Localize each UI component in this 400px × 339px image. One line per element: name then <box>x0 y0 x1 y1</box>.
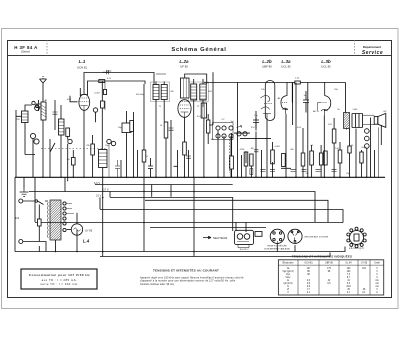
fuse box <box>255 232 262 237</box>
svg-text:L.3a: L.3a <box>281 59 291 64</box>
drop wires to connector <box>236 222 246 232</box>
svg-text:L.2b: L.2b <box>262 59 272 64</box>
cap x251 near bus <box>250 169 253 175</box>
svg-text:L.2a: L.2a <box>179 59 189 64</box>
svg-text:TENSIONS ET INTENSITÉS AU COUR: TENSIONS ET INTENSITÉS AU COURANT <box>153 267 219 272</box>
svg-text:série TD : I = 300 mA.: série TD : I = 300 mA. <box>40 282 78 286</box>
svg-text:V: V <box>376 268 378 270</box>
resistor x350 <box>348 146 351 153</box>
svg-text:0,5M: 0,5M <box>275 146 280 148</box>
svg-text:0,1: 0,1 <box>307 292 311 294</box>
svg-text:TENSIONS ET INTENSITÉS INDIQUÉ: TENSIONS ET INTENSITÉS INDIQUÉES <box>292 253 352 258</box>
svg-text:V: V <box>376 289 378 291</box>
top rail A with wire <box>84 73 154 94</box>
svg-text:Vol: Vol <box>230 121 234 123</box>
svg-text:220: 220 <box>16 119 20 121</box>
wire left input <box>25 105 32 111</box>
svg-text:38: 38 <box>363 289 366 291</box>
svg-text:6,3 V: 6,3 V <box>94 181 100 185</box>
svg-text:UCH 81: UCH 81 <box>304 262 313 264</box>
mains terminal 1 <box>19 199 23 203</box>
svg-text:21 V: 21 V <box>96 193 102 197</box>
svg-text:B+: B+ <box>338 109 341 111</box>
table header text <box>283 261 381 264</box>
svg-text:SECTEUR: SECTEUR <box>213 236 228 240</box>
svg-text:0,1: 0,1 <box>145 156 149 158</box>
svg-text:1,2k: 1,2k <box>295 78 300 80</box>
svg-text:1M: 1M <box>250 148 253 150</box>
svg-text:10n: 10n <box>254 115 258 117</box>
small cap x117 <box>115 160 120 177</box>
mains terminal 2 <box>19 240 23 244</box>
wire x349 <box>349 129 351 178</box>
svg-text:UL 84: UL 84 <box>345 262 352 264</box>
L2b wires <box>267 121 273 178</box>
resistor x105 top <box>103 90 106 95</box>
svg-text:A: A <box>376 291 378 294</box>
inner schematic frame <box>8 41 392 298</box>
tube L3a <box>281 82 293 125</box>
L3b wires <box>323 116 325 178</box>
resistor x135 <box>130 121 134 132</box>
svg-text:mA: mA <box>375 282 379 285</box>
table body text <box>282 268 379 294</box>
wire x68 <box>67 136 69 181</box>
tube socket diagram <box>347 227 366 248</box>
svg-text:1M: 1M <box>210 139 213 141</box>
lower line junction dots <box>55 191 195 253</box>
staircase verticals right <box>315 191 343 223</box>
wire x102 <box>101 81 103 150</box>
socket antenne <box>288 229 302 243</box>
svg-text:L.4: L.4 <box>83 239 90 244</box>
svg-text:4,7k: 4,7k <box>107 78 112 80</box>
svg-text:Électrodes: Électrodes <box>283 261 295 264</box>
svg-text:50µF: 50µF <box>361 147 367 149</box>
wire x103 lower <box>102 177 104 256</box>
tube label L1 <box>77 59 87 70</box>
coil antenna primary <box>22 111 29 123</box>
transformer top wire <box>345 83 347 113</box>
svg-text:Service: Service <box>362 50 383 56</box>
svg-text:2,8: 2,8 <box>307 283 311 285</box>
svg-text:5n: 5n <box>304 95 307 97</box>
heater wire y200 <box>145 200 328 222</box>
tube L2b <box>261 81 275 121</box>
svg-text:Vf: Vf <box>287 289 290 291</box>
svg-text:mA: mA <box>375 285 379 288</box>
svg-text:T2: T2 <box>197 106 200 108</box>
svg-text:98: 98 <box>307 274 310 276</box>
wire x171 <box>170 120 172 177</box>
connector drop wires <box>277 243 295 252</box>
T2 bottoms <box>194 100 203 177</box>
IF transformer T2 winding b <box>200 84 206 100</box>
svg-text:104: 104 <box>362 268 367 270</box>
IF transformer T2 winding a <box>191 84 197 100</box>
svg-text:P.U.: P.U. <box>251 127 255 129</box>
trimmer top <box>35 106 40 111</box>
T1 bottom wires <box>156 100 164 178</box>
svg-text:164: 164 <box>347 268 352 270</box>
output transformer windings <box>352 114 363 128</box>
bottom wire y256 <box>100 253 330 257</box>
wire x188 <box>188 150 190 177</box>
tuning gang capacitor section 1 <box>50 139 55 177</box>
resistor x311 <box>310 151 314 165</box>
electrolytic caps right <box>365 129 370 178</box>
svg-text:8,7: 8,7 <box>347 277 351 279</box>
speaker wires <box>363 115 379 177</box>
top rail B <box>88 81 146 95</box>
wire <box>32 139 34 178</box>
fuse resistor <box>38 219 42 226</box>
svg-text:V: V <box>376 277 378 279</box>
svg-text:5n: 5n <box>306 173 309 175</box>
tensions table <box>278 260 383 295</box>
svg-text:Département: Département <box>363 45 381 49</box>
wire x308 <box>307 83 309 178</box>
grid resistor cluster <box>72 158 76 166</box>
heater wire y197 <box>110 198 233 232</box>
tube label L2a <box>179 59 189 69</box>
svg-text:L.3b: L.3b <box>321 59 331 64</box>
ground symbol left <box>20 188 29 196</box>
svg-text:UF 80: UF 80 <box>180 65 188 69</box>
header model box separator <box>46 40 48 56</box>
svg-text:1M: 1M <box>66 159 69 161</box>
svg-text:Vosc: Vosc <box>286 277 292 279</box>
resistor x246 <box>244 152 248 166</box>
resistor x68 <box>66 128 70 136</box>
svg-text:44,8: 44,8 <box>346 286 351 288</box>
resistor below tube <box>91 144 95 155</box>
resistor mid x144 <box>142 150 146 162</box>
IF can 2 shield <box>181 78 190 98</box>
resistor on x102 <box>101 101 105 108</box>
wire y228 <box>150 227 266 229</box>
svg-text:110: 110 <box>15 216 20 220</box>
svg-text:Consommation pour 127 V/50 Hz: Consommation pour 127 V/50 Hz <box>29 273 90 277</box>
bottom-left consumption box <box>21 269 97 289</box>
antenna <box>40 75 47 91</box>
wire x316 <box>311 145 313 177</box>
resistor x166 <box>164 122 168 138</box>
tube label L2b <box>262 59 272 69</box>
svg-text:Ig2 (3+5): Ig2 (3+5) <box>283 283 292 285</box>
caps above bus row <box>261 169 337 171</box>
top rail C <box>204 82 346 84</box>
capacitor input <box>36 100 41 111</box>
resistor x361 <box>360 152 363 163</box>
selector arrow <box>237 125 242 128</box>
svg-text:BROCHE ANT. VOITURE: BROCHE ANT. VOITURE <box>305 235 329 238</box>
svg-text:110-245 V: 110-245 V <box>239 249 249 251</box>
svg-text:452: 452 <box>208 91 212 93</box>
IF can T1 outline <box>151 82 170 102</box>
push button switch box <box>213 123 234 140</box>
svg-text:UCL 82: UCL 82 <box>321 65 331 69</box>
bottom wire y251 <box>15 247 345 252</box>
T2 top wire <box>194 79 203 84</box>
svg-text:0,02: 0,02 <box>297 127 302 129</box>
resistor x321 <box>319 153 322 165</box>
mains switch <box>23 201 48 205</box>
IF transformer T1 winding b <box>161 85 167 100</box>
cap x158 top <box>156 73 166 75</box>
svg-text:UBF 80: UBF 80 <box>262 65 272 69</box>
antenna choke <box>41 102 46 120</box>
wire x137 <box>137 150 139 177</box>
svg-text:Schéma Général: Schéma Général <box>171 47 226 53</box>
wire vertical x133 <box>133 112 135 177</box>
svg-text:17: 17 <box>307 289 310 291</box>
svg-text:80: 80 <box>307 271 310 273</box>
svg-text:AF 7k: AF 7k <box>313 110 320 113</box>
detector link wires <box>234 133 271 138</box>
component value labels <box>16 71 387 176</box>
svg-text:CV: CV <box>221 119 225 121</box>
transformer taps <box>63 202 74 232</box>
svg-text:6,8: 6,8 <box>307 286 311 288</box>
resistor under L2a <box>183 142 187 155</box>
T1 top wires <box>156 82 164 85</box>
resistor x251 <box>250 154 253 166</box>
svg-text:+: + <box>369 139 371 141</box>
wire <box>60 105 62 177</box>
gang link dashed <box>41 148 107 150</box>
junction dots on bus <box>42 176 367 178</box>
left drop wires <box>15 177 110 251</box>
wire x292 <box>291 83 293 103</box>
filament wire y184 <box>95 185 233 197</box>
svg-text:Va: Va <box>287 268 290 270</box>
wire x177 <box>177 150 179 177</box>
svg-text:41: 41 <box>347 280 350 282</box>
wire x374 <box>374 150 376 177</box>
wire x237 <box>237 83 239 178</box>
svg-text:Ia: Ia <box>287 280 290 282</box>
cathode resistor x340 <box>338 150 342 163</box>
svg-text:117 V: 117 V <box>102 188 109 192</box>
speaker <box>374 113 386 127</box>
svg-text:Unité: Unité <box>374 261 380 264</box>
svg-text:22k: 22k <box>86 145 90 147</box>
header service box separator <box>354 40 356 56</box>
svg-text:1k: 1k <box>160 125 163 127</box>
IF can T2 outline <box>189 82 209 102</box>
svg-text:UCH 81: UCH 81 <box>77 66 87 70</box>
svg-text:UCL 82: UCL 82 <box>281 65 291 69</box>
svg-text:104: 104 <box>347 271 352 273</box>
tube L1 <box>70 94 90 111</box>
svg-text:UBF 80: UBF 80 <box>325 262 334 264</box>
svg-text:0,047: 0,047 <box>94 93 100 95</box>
svg-text:If: If <box>287 292 289 294</box>
feedback wire y222 <box>35 222 343 224</box>
svg-text:AF: AF <box>278 97 281 100</box>
switch wires <box>218 130 231 177</box>
capacitor on rail A <box>103 70 110 74</box>
svg-text:6,5: 6,5 <box>327 283 331 285</box>
svg-text:T1: T1 <box>159 106 162 108</box>
resistor x333 <box>332 129 336 143</box>
cap x171 <box>169 128 174 130</box>
svg-text:107: 107 <box>307 268 312 270</box>
svg-text:Courant continue total : 96 mA: Courant continue total : 96 mA. <box>140 283 175 286</box>
svg-text:47k: 47k <box>170 91 174 93</box>
svg-text:470k: 470k <box>240 149 246 151</box>
wire transformer bottom <box>346 129 348 130</box>
svg-text:98: 98 <box>328 271 331 273</box>
cap pair right <box>303 91 309 113</box>
L4 wires <box>76 213 78 252</box>
wire x55 <box>54 100 56 130</box>
AVC wire y209 <box>100 210 343 223</box>
svg-text:45: 45 <box>347 289 350 291</box>
wire x296 <box>295 83 297 178</box>
svg-text:0,1: 0,1 <box>310 145 314 147</box>
tube L2a <box>178 100 191 118</box>
svg-text:L.1: L.1 <box>79 59 86 64</box>
mains connector box <box>235 230 254 244</box>
power transformer winding bumps <box>47 202 48 238</box>
tuning coil secondary <box>59 119 65 135</box>
IF transformer T1 winding a <box>153 85 159 100</box>
detector resistor <box>207 120 210 133</box>
svg-text:0,1: 0,1 <box>362 292 366 294</box>
wire x16 <box>16 110 22 177</box>
trimmer x70 <box>68 139 72 143</box>
svg-text:V: V <box>376 274 378 276</box>
oscillator coil box <box>99 150 108 168</box>
heater chain wire y190 <box>29 192 315 223</box>
resistor x272.5 <box>271 150 275 164</box>
resistor right of T2 <box>201 103 206 118</box>
wire L1 cathode down <box>83 110 85 177</box>
cap x256 mid <box>254 150 259 152</box>
transformer bottom wires <box>39 240 55 252</box>
svg-text:175: 175 <box>327 268 332 270</box>
svg-text:470: 470 <box>328 124 332 126</box>
wire x361 <box>361 150 363 177</box>
L3a wires <box>281 114 291 177</box>
svg-text:50k: 50k <box>290 149 294 151</box>
L2a wires <box>174 117 185 177</box>
cap box <box>122 123 131 133</box>
volume control wire <box>209 72 213 125</box>
rectifier tube L4 <box>67 224 83 235</box>
svg-text:100p: 100p <box>107 71 113 73</box>
wire antenna down <box>42 91 44 177</box>
cathode resistor L3b <box>324 151 328 165</box>
svg-text:Vg1: Vg1 <box>286 274 291 276</box>
resistor on rail B <box>99 80 105 83</box>
svg-text:(Série): (Série) <box>21 50 30 54</box>
svg-text:+: + <box>369 131 371 133</box>
wire x261 <box>261 150 263 177</box>
voltage selector bits <box>238 245 249 248</box>
svg-text:HP: HP <box>383 111 387 113</box>
trimmer CT1 <box>30 133 35 138</box>
secteur arrow and label <box>203 236 211 238</box>
svg-text:V: V <box>376 271 378 273</box>
svg-text:mA: mA <box>375 279 379 282</box>
svg-text:Ik: Ik <box>287 286 290 288</box>
svg-text:3,6: 3,6 <box>347 283 351 285</box>
svg-text:a.b.c.d.e.f.g.h.i: a.b.c.d.e.f.g.h.i <box>349 248 365 250</box>
svg-text:aux TD : I = 285 mA.: aux TD : I = 285 mA. <box>42 278 78 282</box>
power transformer hatched core <box>50 200 61 240</box>
wire x80 <box>79 88 81 96</box>
svg-text:UY 85: UY 85 <box>361 262 368 264</box>
resistor on rail C <box>295 81 301 84</box>
svg-text:AT: AT <box>45 99 48 102</box>
svg-text:Vg2 (g3+5): Vg2 (g3+5) <box>282 271 293 273</box>
tube L3b <box>318 82 331 116</box>
right vertical wires <box>356 118 381 178</box>
header rule <box>8 55 392 57</box>
svg-text:0,05: 0,05 <box>67 99 72 101</box>
tube label L3b <box>321 59 331 69</box>
wire x256 <box>255 117 257 177</box>
padder trimmers <box>107 139 111 143</box>
resistor x231 <box>230 156 234 169</box>
socket P.U. <box>270 229 284 243</box>
cap x55 <box>53 112 58 114</box>
trimmer right of tube <box>93 108 97 112</box>
output transformer core <box>344 113 350 129</box>
svg-text:0,1: 0,1 <box>347 292 351 294</box>
resistor x301 <box>301 153 305 166</box>
push button switch bank <box>216 126 247 138</box>
ground bus wire <box>15 176 385 178</box>
switch circles <box>32 101 35 104</box>
svg-text:UY 85: UY 85 <box>85 229 93 233</box>
svg-text:4,6: 4,6 <box>307 280 311 282</box>
wire x241 <box>241 155 243 177</box>
svg-text:50: 50 <box>351 145 354 147</box>
svg-text:200: 200 <box>334 89 338 91</box>
cap x188 <box>186 156 191 158</box>
svg-text:452 kHz: 452 kHz <box>136 94 144 96</box>
svg-text:7,3: 7,3 <box>347 274 351 276</box>
capacitor x146 <box>148 158 153 178</box>
wire x121 <box>120 160 122 177</box>
bottom connector cluster <box>203 227 366 252</box>
svg-text:42: 42 <box>328 280 331 282</box>
resistor x281 <box>282 154 286 167</box>
svg-text:2x35: 2x35 <box>353 109 359 111</box>
mechanical link dashed <box>228 140 230 174</box>
tube label L3a <box>281 59 291 69</box>
coupling cap <box>253 111 259 131</box>
